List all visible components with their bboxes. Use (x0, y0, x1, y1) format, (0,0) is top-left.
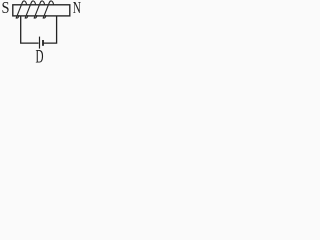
svg-text:N: N (73, 0, 81, 17)
svg-text:D: D (36, 46, 44, 67)
svg-text:S: S (2, 0, 10, 17)
